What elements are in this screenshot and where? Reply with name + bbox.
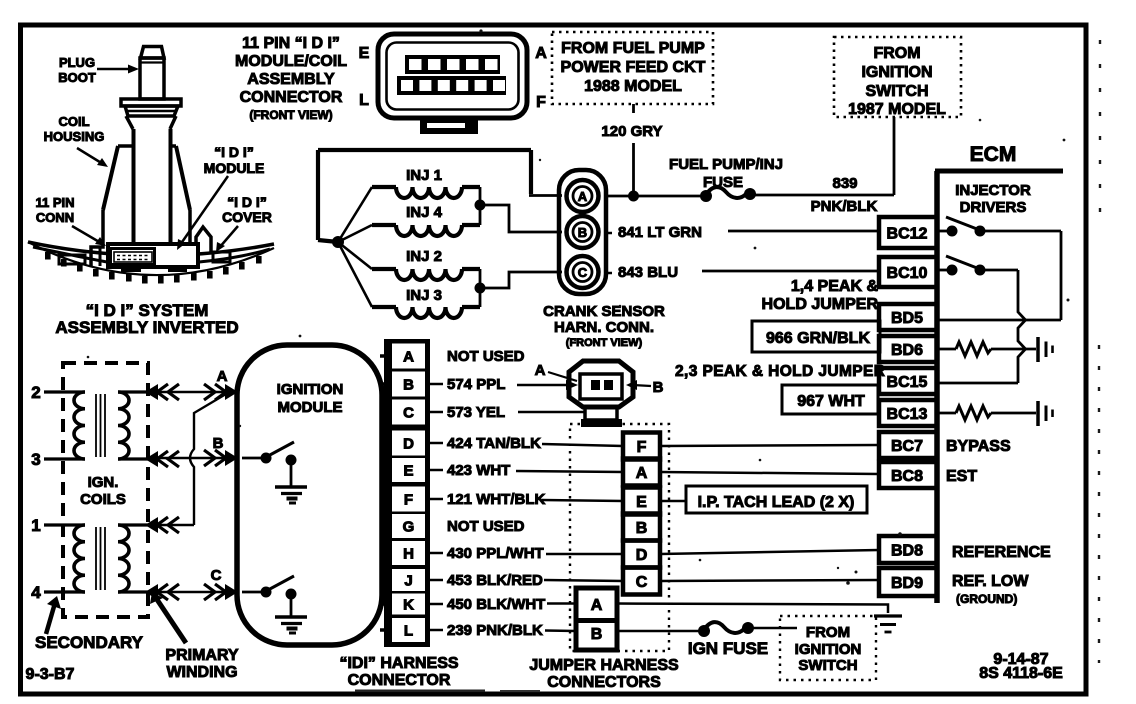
svg-text:SWITCH: SWITCH bbox=[865, 83, 928, 100]
svg-text:FROM FUEL PUMP: FROM FUEL PUMP bbox=[561, 40, 705, 57]
svg-text:FUSE: FUSE bbox=[703, 174, 743, 191]
svg-text:1987 MODEL: 1987 MODEL bbox=[848, 101, 946, 118]
svg-text:FROM: FROM bbox=[806, 624, 850, 641]
svg-text:F: F bbox=[536, 94, 546, 111]
svg-text:ASSEMBLY INVERTED: ASSEMBLY INVERTED bbox=[55, 318, 238, 337]
svg-text:A: A bbox=[591, 597, 603, 614]
svg-text:H: H bbox=[403, 546, 414, 563]
svg-text:C: C bbox=[211, 567, 222, 584]
svg-text:1,4 PEAK &: 1,4 PEAK & bbox=[791, 278, 879, 295]
svg-text:11 PIN “I D I”: 11 PIN “I D I” bbox=[242, 35, 340, 52]
svg-text:1: 1 bbox=[31, 516, 40, 535]
svg-text:BC12: BC12 bbox=[887, 226, 928, 243]
svg-text:MODULE: MODULE bbox=[278, 399, 343, 416]
svg-text:A: A bbox=[636, 465, 648, 482]
svg-text:2,3 PEAK & HOLD JUMPER: 2,3 PEAK & HOLD JUMPER bbox=[675, 363, 885, 380]
svg-text:A: A bbox=[535, 362, 546, 379]
svg-text:IGN FUSE: IGN FUSE bbox=[688, 639, 768, 658]
svg-text:B: B bbox=[591, 626, 603, 643]
svg-text:121 WHT/BLK: 121 WHT/BLK bbox=[447, 491, 546, 508]
svg-text:J: J bbox=[404, 573, 412, 590]
svg-text:BC10: BC10 bbox=[887, 265, 928, 282]
svg-text:COVER: COVER bbox=[222, 209, 272, 225]
svg-text:B: B bbox=[213, 435, 224, 452]
svg-text:967 WHT: 967 WHT bbox=[797, 393, 865, 410]
svg-text:NOT USED: NOT USED bbox=[447, 348, 525, 365]
svg-text:C: C bbox=[403, 405, 414, 422]
svg-text:BC15: BC15 bbox=[887, 374, 928, 391]
svg-text:A: A bbox=[217, 368, 228, 385]
svg-text:“I D I”: “I D I” bbox=[214, 144, 254, 160]
svg-text:MODULE/COIL: MODULE/COIL bbox=[235, 53, 347, 70]
svg-text:IGNITION: IGNITION bbox=[861, 64, 932, 81]
svg-text:B: B bbox=[653, 379, 664, 396]
svg-text:CONNECTOR: CONNECTOR bbox=[348, 672, 451, 689]
svg-text:L: L bbox=[359, 92, 369, 109]
svg-text:E: E bbox=[359, 45, 370, 62]
svg-text:430 PPL/WHT: 430 PPL/WHT bbox=[447, 545, 544, 562]
svg-text:NOT USED: NOT USED bbox=[447, 518, 525, 535]
svg-text:839: 839 bbox=[832, 175, 857, 192]
svg-text:423 WHT: 423 WHT bbox=[447, 462, 510, 479]
svg-text:“I D I”: “I D I” bbox=[227, 194, 267, 210]
svg-text:INJ 1: INJ 1 bbox=[406, 167, 442, 184]
svg-text:F: F bbox=[404, 492, 413, 509]
svg-text:574 PPL: 574 PPL bbox=[447, 376, 505, 393]
svg-text:PLUG: PLUG bbox=[59, 55, 95, 70]
svg-text:MODULE: MODULE bbox=[204, 160, 265, 176]
svg-text:HOUSING: HOUSING bbox=[44, 129, 105, 144]
svg-text:“IDI” HARNESS: “IDI” HARNESS bbox=[339, 655, 458, 672]
svg-text:CONN: CONN bbox=[36, 210, 74, 225]
svg-text:I.P. TACH LEAD (2 X): I.P. TACH LEAD (2 X) bbox=[698, 494, 855, 511]
svg-text:ASSEMBLY: ASSEMBLY bbox=[247, 71, 335, 88]
svg-text:239 PNK/BLK: 239 PNK/BLK bbox=[447, 622, 543, 639]
svg-text:CONNECTOR: CONNECTOR bbox=[240, 89, 343, 106]
svg-text:8S 4118-6E: 8S 4118-6E bbox=[979, 665, 1063, 682]
svg-text:HARN. CONN.: HARN. CONN. bbox=[554, 319, 654, 336]
svg-text:SECONDARY: SECONDARY bbox=[35, 633, 144, 652]
svg-text:B: B bbox=[578, 225, 587, 240]
svg-text:HOLD JUMPER: HOLD JUMPER bbox=[762, 296, 879, 313]
svg-text:424 TAN/BLK: 424 TAN/BLK bbox=[447, 435, 541, 452]
svg-text:C: C bbox=[636, 574, 648, 591]
svg-text:COILS: COILS bbox=[80, 491, 126, 508]
svg-text:453 BLK/RED: 453 BLK/RED bbox=[447, 572, 543, 589]
svg-text:ECM: ECM bbox=[970, 143, 1017, 166]
svg-text:CONNECTORS: CONNECTORS bbox=[547, 674, 661, 691]
svg-text:BD6: BD6 bbox=[891, 342, 923, 359]
svg-text:INJ 4: INJ 4 bbox=[406, 204, 443, 221]
svg-text:REFERENCE: REFERENCE bbox=[952, 544, 1051, 561]
svg-text:IGN.: IGN. bbox=[88, 474, 119, 491]
svg-text:INJ 3: INJ 3 bbox=[406, 287, 442, 304]
svg-text:CRANK SENSOR: CRANK SENSOR bbox=[543, 303, 665, 320]
svg-text:INJECTOR: INJECTOR bbox=[955, 182, 1031, 199]
svg-text:E: E bbox=[403, 463, 413, 480]
svg-text:(FRONT VIEW): (FRONT VIEW) bbox=[566, 337, 643, 349]
svg-text:D: D bbox=[403, 436, 414, 453]
svg-text:FROM: FROM bbox=[873, 45, 920, 62]
svg-text:COIL: COIL bbox=[58, 114, 89, 129]
svg-text:EST: EST bbox=[946, 468, 977, 485]
svg-text:WINDING: WINDING bbox=[166, 664, 237, 681]
svg-text:4: 4 bbox=[31, 583, 41, 602]
svg-text:A: A bbox=[403, 349, 414, 366]
svg-text:FUEL PUMP/INJ: FUEL PUMP/INJ bbox=[669, 156, 783, 173]
svg-text:G: G bbox=[403, 519, 415, 536]
svg-text:L: L bbox=[404, 623, 413, 640]
svg-text:(GROUND): (GROUND) bbox=[956, 592, 1017, 606]
svg-text:E: E bbox=[636, 494, 647, 511]
svg-text:JUMPER HARNESS: JUMPER HARNESS bbox=[529, 657, 679, 674]
svg-text:1988 MODEL: 1988 MODEL bbox=[584, 78, 682, 95]
svg-text:F: F bbox=[637, 439, 647, 456]
svg-text:11 PIN: 11 PIN bbox=[35, 195, 74, 210]
svg-text:D: D bbox=[636, 547, 648, 564]
svg-text:REF. LOW: REF. LOW bbox=[952, 573, 1029, 590]
svg-text:966 GRN/BLK: 966 GRN/BLK bbox=[766, 330, 870, 347]
svg-text:9-3-B7: 9-3-B7 bbox=[26, 666, 75, 683]
svg-text:843 BLU: 843 BLU bbox=[618, 264, 678, 281]
svg-text:SWITCH: SWITCH bbox=[798, 657, 857, 674]
svg-text:A: A bbox=[535, 45, 547, 62]
svg-text:BD5: BD5 bbox=[891, 310, 923, 327]
svg-text:2: 2 bbox=[31, 383, 40, 402]
svg-text:120 GRY: 120 GRY bbox=[601, 123, 662, 140]
svg-text:IGNITION: IGNITION bbox=[795, 641, 862, 658]
svg-text:BYPASS: BYPASS bbox=[946, 438, 1011, 455]
svg-text:841 LT GRN: 841 LT GRN bbox=[618, 224, 702, 241]
svg-text:A: A bbox=[578, 189, 588, 204]
svg-text:573 YEL: 573 YEL bbox=[447, 404, 505, 421]
svg-text:PNK/BLK: PNK/BLK bbox=[811, 198, 878, 215]
svg-text:B: B bbox=[636, 520, 648, 537]
svg-text:(FRONT VIEW): (FRONT VIEW) bbox=[249, 108, 332, 122]
svg-text:INJ 2: INJ 2 bbox=[406, 248, 442, 265]
svg-text:BOOT: BOOT bbox=[58, 70, 96, 85]
svg-text:C: C bbox=[578, 265, 588, 280]
svg-text:BC8: BC8 bbox=[891, 468, 923, 485]
svg-text:3: 3 bbox=[31, 450, 40, 469]
svg-text:BD9: BD9 bbox=[891, 575, 923, 592]
svg-text:B: B bbox=[403, 377, 414, 394]
svg-text:POWER FEED CKT: POWER FEED CKT bbox=[561, 59, 706, 76]
svg-text:PRIMARY: PRIMARY bbox=[165, 647, 239, 664]
svg-text:BC7: BC7 bbox=[891, 438, 923, 455]
svg-text:K: K bbox=[403, 597, 414, 614]
svg-text:BC13: BC13 bbox=[887, 406, 928, 423]
svg-text:450 BLK/WHT: 450 BLK/WHT bbox=[447, 596, 545, 613]
svg-text:DRIVERS: DRIVERS bbox=[960, 199, 1027, 216]
svg-text:IGNITION: IGNITION bbox=[277, 381, 344, 398]
